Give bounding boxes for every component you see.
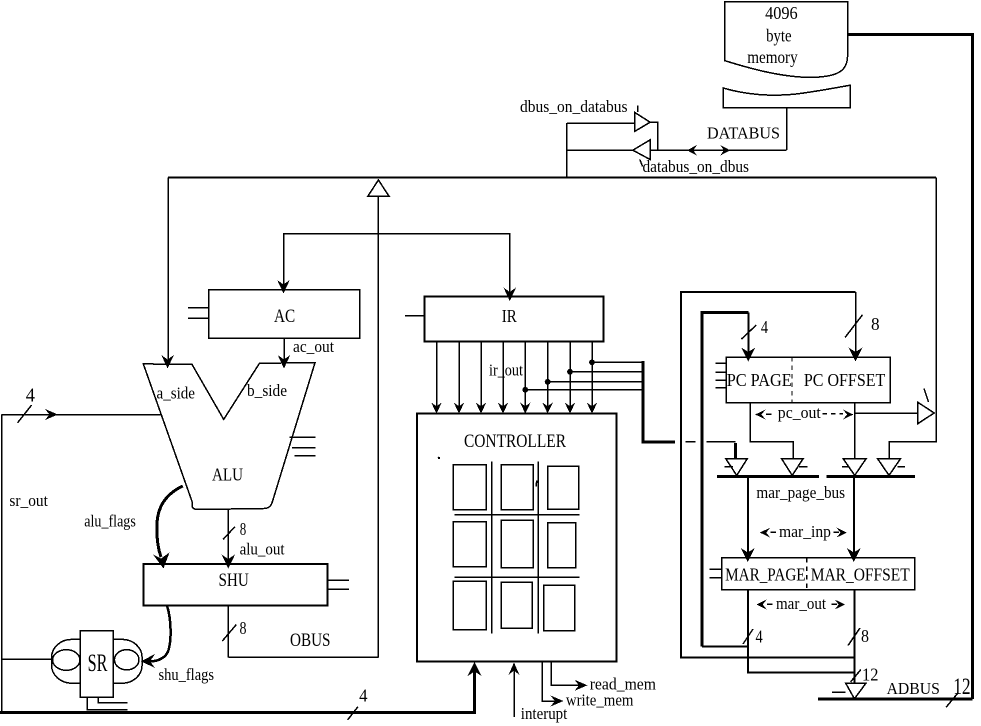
wire status bus bottom [0,666,475,712]
wire buffer output to DATABUS [650,122,657,150]
PC divider dashed [791,357,793,402]
svg-text:mar_out: mar_out [776,594,826,613]
svg-text:alu_out: alu_out [240,540,285,559]
svg-text:mar_inp: mar_inp [779,522,831,541]
register MAR [722,558,915,590]
IR left pin tick [405,315,426,317]
wire ir_out line 8 [591,342,593,411]
svg-text:8: 8 [240,618,247,638]
svg-text:OBUS: OBUS [290,630,331,651]
svg-text:4: 4 [756,627,763,647]
svg-text:b_side: b_side [247,381,287,400]
dashes pc_out right [823,413,844,415]
slash alu_out 8 [223,527,235,540]
buffer ir to mar_page_bus [726,459,748,476]
svg-text:alu_flags: alu_flags [84,512,136,531]
svg-text:PC OFFSET: PC OFFSET [804,370,885,390]
SR right ellipse [114,650,139,670]
svg-text:12: 12 [953,674,970,699]
wire DBUS left drop to ALU a_side [167,178,169,361]
wire into dbus_on_databus buffer [567,122,635,124]
dash pc_out left [766,413,772,415]
wire mar_page feedback top to PC PAGE [701,311,749,314]
SR stadium [52,639,143,683]
controller grid cell r1c3 [548,466,579,509]
controller grid cell r2c3 [548,523,576,568]
wire drop to PC PAGE [747,312,749,356]
memory lower wave plate [723,85,850,107]
wire ir bundle crossing segment 1 [686,441,696,443]
arrow mar_out right [835,600,845,610]
wire ir_out line 2 [458,342,460,411]
svg-text:ADBUS: ADBUS [887,679,940,698]
dash mar_inp left [771,531,777,533]
wire bus to MAR_PAGE [747,476,749,556]
slash sr_out 4 [18,405,32,423]
wire memory plate to databus [786,108,788,151]
wire ir_out line 4 [502,342,504,411]
wire ir_out line 7 [569,342,571,411]
arrow alu_out into SHU [222,555,236,569]
SHU right pin ticks [328,580,349,589]
buffer dbus to bus [878,459,901,476]
wire pc offset down [854,403,856,459]
wire feedback drop to PC OFFSET [855,292,857,356]
wire sr_out left vertical [1,415,3,713]
svg-text:PC PAGE: PC PAGE [727,370,792,390]
svg-text:a_side: a_side [157,384,196,403]
svg-text:memory: memory [747,47,798,67]
speck near controller [438,457,440,459]
controller grid cell r3c3 [544,585,575,631]
wire ir_out line 6 [547,342,549,411]
svg-text:AC: AC [274,307,295,327]
controller grid horizontal separators [454,515,579,578]
MAR divider dashed [806,558,808,590]
wire mar_offset out [853,590,855,683]
buffer databus_on_dbus control pin [640,160,643,167]
AC left pin ticks [188,308,209,319]
arrow into MAR_OFFSET [847,548,861,562]
buffer ir control tick [724,466,733,468]
svg-text:interupt: interupt [521,704,568,723]
register SHU [144,564,328,606]
buffer dbus_on_databus [635,112,650,131]
svg-text:IR: IR [502,306,517,326]
dash mar_out left [767,603,773,605]
wire ir bundle drop into buffer [734,443,737,459]
buffer pc_page control tick [799,466,808,468]
wire ir_out line 3 [480,342,482,411]
junction dot line 5 [522,387,528,393]
bus mar_page_bus left segment [717,475,819,478]
svg-text:byte: byte [766,26,792,46]
svg-text:SHU: SHU [219,570,250,591]
arrow into IR [504,288,517,302]
buffer pc_page to mar_page_bus [782,459,804,476]
wire buffers left vertical to DBUS [566,123,568,178]
arrow ac_out into ALU b_side [278,355,291,369]
wire mar_offset feedback left vertical [681,292,856,657]
wire mar_page out [748,590,854,673]
arrow databus right [720,145,730,156]
slash status bus 4 [348,707,358,720]
svg-text:pc_out: pc_out [778,403,821,422]
wire DBUS main horizontal [168,177,936,179]
controller grid cell r1c1 [453,465,486,510]
arrow mar_out left [756,600,766,610]
wire alu_out [227,510,229,561]
wire mar_page feedback vertical [700,312,703,646]
wire ir bundle branch 6 [548,381,643,383]
ALU funnel [143,363,315,510]
svg-text:CONTROLLER: CONTROLLER [464,432,567,452]
curve alu_flags [157,486,183,557]
controller grid cell r2c2 [501,520,533,568]
curve shu_flags [150,606,171,662]
wire write_mem [542,662,557,702]
arrow status bus into CONTROLLER [468,662,482,676]
wire ir bundle branch 5 [525,389,643,391]
arrow read_mem [575,680,588,691]
buffer pc to dbus (right) [918,402,934,423]
controller grid cell r1c2 [501,465,533,510]
wire SHU to OBUS [227,606,229,658]
register AC [209,290,360,339]
arrow interupt into CONTROLLER [509,663,520,676]
wire sr_out input [2,658,52,660]
wire DBUS right drop [889,178,936,459]
buffer pc_offset control tick [842,466,849,468]
SR left ellipse [53,650,80,671]
MAR left pin ticks [710,569,722,578]
slash 8 into PC OFFSET [845,315,862,338]
arrow into AC [277,280,290,294]
buffer obus to dbus (up triangle) [368,180,389,196]
arrow pc_out left [755,410,765,420]
arrow mar_inp left [760,528,770,538]
buffer databus_on_dbus [633,140,650,160]
wire DATABUS [650,149,786,151]
SR box [80,631,113,698]
arrow write_mem [551,696,564,707]
svg-text:DATABUS: DATABUS [707,124,780,143]
wire ir_out line 5 [524,342,526,411]
svg-text:write_mem: write_mem [566,691,634,710]
arrow on sr_out wire [45,409,58,420]
wire interupt [513,666,515,717]
wire OBUS horizontal [228,656,378,658]
memory block 4096 byte memory [725,2,848,78]
wire sr_out to ALU a_side [2,414,162,416]
buffer pc to dbus control tick [924,389,929,403]
wire dbus to AC and IR [284,234,510,296]
slash 4 into PC PAGE [741,325,756,339]
dash mar_out right [832,603,838,605]
svg-text:MAR_PAGE: MAR_PAGE [725,564,806,584]
svg-text:dbus_on_databus: dbus_on_databus [520,97,628,116]
wire ir_out line 1 [436,342,438,411]
controller grid vertical separators [492,462,539,634]
arrow into PC OFFSET [849,348,863,362]
svg-text:8: 8 [871,314,880,334]
buffer mar to ADBUS [846,683,867,699]
slash ADBUS 12 right [946,693,958,708]
slash mar_page 4 [743,629,753,644]
controller grid cell r3c1 [453,581,486,629]
svg-text:MAR_OFFSET: MAR_OFFSET [811,564,910,584]
controller grid cell r3c2 [501,582,532,628]
bus mar_page_bus right segment [827,475,915,478]
buffer mar to ADBUS control tick [832,691,845,693]
buffer pc_offset to bus [843,459,866,476]
wire out of databus_on_dbus buffer [567,149,633,151]
wire read_mem [551,662,581,686]
svg-text:12: 12 [862,665,878,685]
SR bottom pins [87,697,127,709]
arrow into ALU a_side [161,355,174,369]
bus ADBUS [818,697,973,700]
junction dot line 7 [567,369,573,375]
svg-text:ir_out: ir_out [489,361,523,380]
svg-text:4: 4 [761,317,768,337]
slash OBUS 8 [222,625,236,641]
wire ir bundle branch 7 [570,371,643,373]
svg-text:SR: SR [88,650,108,677]
wire pc page down [750,403,793,459]
wire bus to MAR_OFFSET [853,476,855,556]
arrows ir_out into CONTROLLER [431,403,597,414]
svg-text:4: 4 [359,685,368,705]
junction dot line 6 [545,379,551,385]
arrow into MAR_PAGE [741,548,755,562]
controller box CONTROLLER [417,414,616,662]
svg-text:shu_flags: shu_flags [159,665,215,684]
wire ir bundle branch 8 [592,361,643,363]
svg-text:mar_page_bus: mar_page_bus [756,483,845,502]
svg-text:8: 8 [861,626,869,646]
arrow databus left [687,145,697,156]
svg-text:4: 4 [26,386,35,407]
arrow pc_out right [843,410,853,420]
dash mar_inp right [834,531,840,533]
register PC [726,357,890,402]
wire memory to right edge [848,35,973,699]
ALU right pin ticks [289,437,315,456]
buffer dbus control tick [898,466,905,468]
slash adbus 12 [851,670,861,682]
junction dot line 8 [589,360,595,366]
arrow into PC PAGE [741,348,755,362]
wire obus vertical [377,196,379,657]
arrow shu_flags into SR [141,654,155,668]
svg-text:ALU: ALU [212,465,243,485]
speck in controller cell [535,481,538,487]
wire mar_page feedback bottom [702,646,748,648]
buffer dbus_on_databus control pin [637,106,639,113]
wire pc_out to right buffer [855,412,918,414]
svg-text:databus_on_dbus: databus_on_dbus [643,157,750,176]
svg-text:sr_out: sr_out [9,491,48,510]
wire ac_out [283,338,285,362]
svg-text:4096: 4096 [765,3,798,23]
wire ir bundle down around controller [643,361,675,442]
arrow mar_inp right [837,528,847,538]
wire ir bundle crossing segment 2 [706,441,735,443]
PC left pin ticks [716,363,727,388]
arrow alu_flags into SHU [153,553,170,569]
controller grid cell r2c1 [453,522,486,567]
svg-text:ac_out: ac_out [293,337,334,356]
slash mar_offset 8 [848,628,860,646]
register IR [425,297,604,342]
svg-text:8: 8 [240,519,247,539]
